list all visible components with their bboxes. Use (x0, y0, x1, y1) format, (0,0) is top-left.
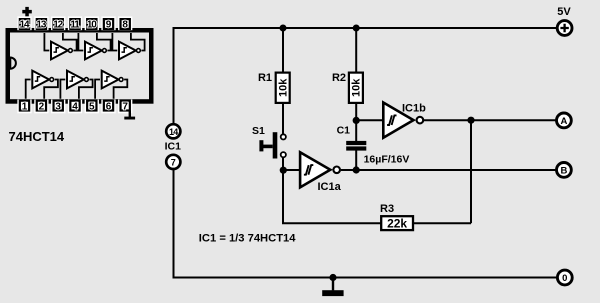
svg-text:7: 7 (122, 101, 128, 112)
IC package DIP-14 body (8, 30, 152, 101)
inverter gate pins 9-8 input wire (112, 33, 117, 51)
svg-text:IC1b: IC1b (402, 103, 426, 115)
pin 1 (17, 100, 31, 114)
inverter gate pins 9-8 output wire (131, 33, 145, 51)
svg-text:5V: 5V (557, 6, 571, 18)
wire: left rail lower (173, 170, 175, 278)
pin 6 (101, 100, 115, 114)
inverter gate pins 5-6 (102, 71, 123, 89)
inverter gate pins 5-6 output wire (114, 80, 128, 99)
junction: R2 top (353, 25, 360, 32)
svg-text:IC1 = 1/3 74HCT14: IC1 = 1/3 74HCT14 (199, 233, 296, 245)
wire: R3 left (283, 170, 381, 224)
resistor R2 (349, 73, 363, 103)
pin-1 notch (10, 58, 16, 69)
junction: IC1b input node (353, 117, 360, 124)
junction: ground node (329, 274, 336, 281)
wire: IC1a output to B (341, 169, 556, 171)
svg-text:C1: C1 (337, 125, 351, 137)
svg-text:74HCT14: 74HCT14 (9, 129, 65, 144)
wire: IC1b output to A (424, 119, 556, 121)
pin 14 (17, 16, 31, 30)
pin 2 (34, 100, 48, 114)
pin 4 (68, 100, 82, 114)
svg-text:5: 5 (89, 101, 95, 112)
pin 3 (51, 100, 65, 114)
svg-text:S1: S1 (252, 125, 265, 137)
inverter gate pins 1-2 input wire (26, 80, 31, 99)
svg-text:2: 2 (39, 101, 45, 112)
inverter gate pins 3-4 input wire (60, 80, 65, 99)
terminal 0 (557, 270, 572, 285)
inverter gate pins 11-10 output wire (97, 33, 111, 51)
wire: 5V to R1 (282, 28, 284, 72)
inverter gate pins 3-4 (67, 71, 88, 89)
svg-text:16µF/16V: 16µF/16V (364, 154, 410, 166)
junction: R1 top (280, 25, 287, 32)
inverter gate pins 11-10 input wire (78, 33, 83, 51)
svg-text:A: A (560, 116, 567, 127)
svg-text:12: 12 (53, 20, 63, 31)
wire: left rail upper (173, 28, 175, 123)
svg-text:1: 1 (22, 101, 28, 112)
pin 13 (34, 16, 48, 30)
svg-text:9: 9 (106, 20, 112, 31)
wire: node to C1 (355, 120, 357, 141)
svg-text:R1: R1 (258, 72, 272, 84)
switch S1 (259, 132, 286, 158)
pin 12 (51, 16, 65, 30)
resistor R3 (381, 216, 413, 230)
svg-text:4: 4 (72, 101, 78, 112)
terminal 5V (557, 21, 572, 36)
svg-text:22k: 22k (387, 217, 407, 231)
pin 5 (85, 100, 99, 114)
svg-text:R2: R2 (332, 72, 346, 84)
resistor R1 (276, 73, 290, 103)
wire: R1 to S1 (282, 104, 284, 135)
inverter gate pins 1-2 (32, 71, 53, 89)
svg-text:IC1a: IC1a (318, 181, 342, 193)
op-amp IC1b (Schmitt inverter) (383, 103, 423, 138)
capacitor C1 (346, 141, 366, 151)
svg-text:10: 10 (87, 20, 97, 31)
ground symbol below pin 7 (124, 111, 135, 120)
svg-text:0: 0 (562, 273, 567, 284)
inverter gate pins 13-12 input wire (44, 33, 49, 51)
svg-text:B: B (560, 166, 567, 177)
svg-text:6: 6 (106, 101, 112, 112)
svg-text:10k: 10k (278, 78, 290, 97)
wire: C1 to IC1a output node (355, 150, 357, 170)
wire: S1 to IC1a input (282, 157, 284, 170)
pin 10 (85, 16, 99, 30)
wire: feedback vertical (470, 119, 472, 223)
pin 11 (68, 16, 82, 30)
svg-text:R3: R3 (380, 203, 394, 215)
wire: R3 right (414, 222, 471, 224)
op-amp IC1a (Schmitt inverter) (300, 152, 340, 187)
pin 8 (118, 16, 132, 30)
ground symbol (322, 278, 343, 297)
plus polarity mark above pin 14 (22, 7, 32, 16)
wire: top 5V rail (174, 27, 557, 28)
svg-text:IC1: IC1 (165, 141, 182, 153)
inverter gate pins 13-12 output wire (63, 33, 77, 51)
inverter gate pins 3-4 output wire (79, 80, 93, 99)
svg-text:10k: 10k (351, 78, 363, 97)
wire: node to IC1a (282, 169, 300, 171)
svg-text:13: 13 (36, 20, 46, 31)
wire: 5V to R2 (355, 28, 357, 72)
junction: feedback node (467, 117, 474, 124)
svg-text:14: 14 (169, 127, 178, 137)
svg-text:8: 8 (122, 20, 128, 31)
node pin 14 circle (166, 124, 180, 138)
wire: node to IC1b (355, 119, 384, 121)
node pin 7 circle (166, 155, 180, 169)
inverter gate pins 5-6 input wire (95, 80, 100, 99)
svg-text:7: 7 (171, 158, 176, 168)
inverter gate pins 9-8 (119, 42, 140, 60)
svg-text:3: 3 (55, 101, 61, 112)
pin 7 (118, 100, 132, 114)
wire: R2 to IC1b input node (355, 104, 357, 121)
terminal A (557, 113, 572, 128)
inverter gate pins 1-2 output wire (44, 80, 58, 99)
terminal B (557, 163, 572, 178)
junction: C1 bottom node (353, 166, 360, 173)
svg-text:14: 14 (20, 20, 30, 31)
wire: bottom 0V rail (173, 277, 557, 279)
pin 9 (101, 16, 115, 30)
inverter gate pins 13-12 (51, 42, 72, 60)
junction: IC1a input node (280, 167, 287, 174)
inverter gate pins 11-10 (85, 42, 106, 60)
